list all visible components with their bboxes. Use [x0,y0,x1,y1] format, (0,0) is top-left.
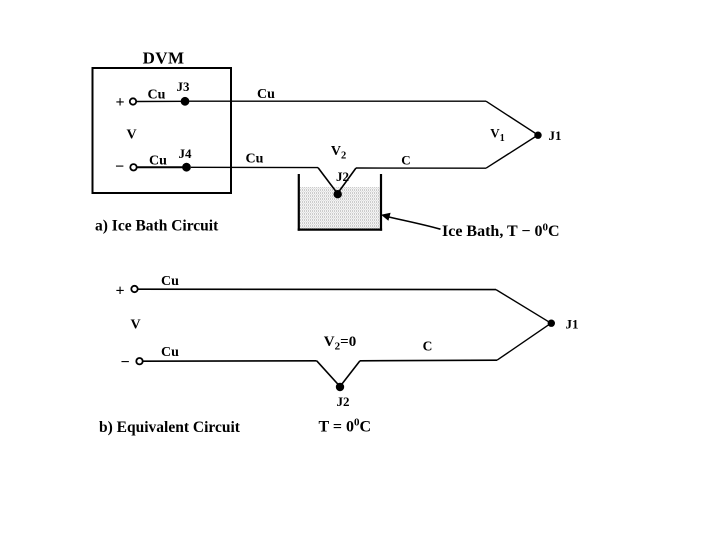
wire from J3 to right bend (top Cu wire) [189,100,486,102]
wire dip into ice bath (right leg) [338,168,357,194]
svg-text:V: V [130,318,140,333]
svg-text:V2=0: V2=0 [324,334,356,353]
svg-text:V: V [126,128,136,143]
ice bath pointer arrowhead [381,213,391,221]
svg-text:+: + [115,94,124,111]
svg-text:J1: J1 [566,317,579,332]
ice bath pointer line [389,217,441,229]
dip left leg (bottom circuit) [317,361,340,387]
ice bath water fill [300,187,380,229]
junction J1 (bottom circuit) [548,320,555,327]
wire from - terminal to J4 [137,166,186,168]
svg-text:T = 00C: T = 00C [319,416,372,435]
svg-text:Cu: Cu [246,152,264,167]
junction J4 [182,163,191,172]
svg-text:J2: J2 [337,394,350,409]
svg-text:J3: J3 [177,79,191,94]
svg-text:J1: J1 [549,128,562,143]
wire dip into ice bath (left leg) [318,168,338,194]
diagonal top wire to J1 (bottom circuit) [496,290,551,324]
junction J2 (ice bath) [334,190,342,198]
svg-text:Cu: Cu [257,87,275,102]
junction J3 [181,97,190,106]
ice bath bottom [298,229,382,231]
junction J1 (top circuit) [534,132,541,139]
wire from dip to right bend (C wire) [356,167,486,169]
svg-text:Cu: Cu [161,274,179,289]
svg-text:C: C [401,153,410,168]
diagonal wire top to J1 (top circuit) [486,101,538,135]
svg-text:Cu: Cu [161,345,179,360]
svg-text:J2: J2 [336,169,349,184]
svg-text:Cu: Cu [148,88,166,103]
svg-text:J4: J4 [179,146,193,161]
plus terminal circle (bottom circuit) [131,286,137,292]
wire from + terminal to J3 [137,100,185,102]
svg-text:−: − [120,354,129,371]
ice bath right wall [380,174,382,231]
diagonal wire bottom to J1 (top circuit) [486,135,538,168]
svg-text:Ice Bath, T − 00C: Ice Bath, T − 00C [442,222,560,241]
top Cu wire (bottom circuit) [138,288,496,290]
svg-text:b) Equivalent Circuit: b) Equivalent Circuit [99,419,241,436]
dip right leg (bottom circuit) [340,361,360,387]
minus terminal circle (bottom circuit) [136,358,142,364]
svg-text:C: C [423,339,433,354]
C wire (bottom circuit) [360,359,497,362]
bottom Cu wire (bottom circuit) [143,360,317,362]
svg-text:DVM: DVM [143,49,185,68]
minus terminal circle (top circuit) [130,164,136,170]
diagonal bottom wire to J1 (bottom circuit) [497,323,551,360]
DVM box [93,68,232,193]
junction J2 (bottom circuit) [336,383,344,391]
svg-text:a) Ice Bath Circuit: a) Ice Bath Circuit [95,218,219,235]
svg-text:−: − [115,159,124,176]
wire from J4 to ice-bath dip [191,166,318,168]
plus terminal circle (top circuit) [130,98,136,104]
svg-text:+: + [115,283,124,300]
ice bath left wall [298,174,300,231]
